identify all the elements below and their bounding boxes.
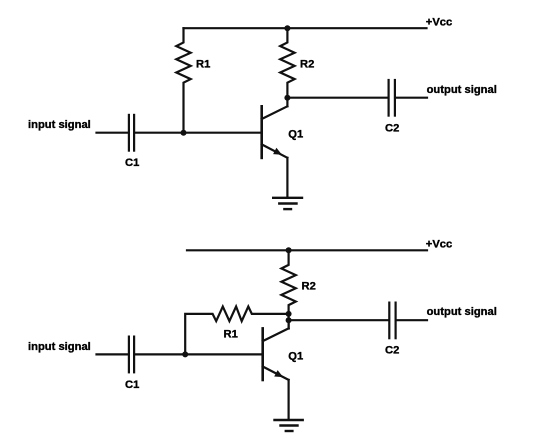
svg-text:C1: C1 <box>125 379 139 391</box>
ground (top) <box>273 198 302 209</box>
resistor R1 <box>176 28 190 133</box>
wire emitter to ground (bottom) <box>288 380 290 419</box>
resistor R2 <box>280 28 294 98</box>
node base junction (bottom) <box>182 351 188 357</box>
capacitor C2 (top) <box>388 80 390 116</box>
svg-text:output signal: output signal <box>427 306 497 318</box>
node rail-R2 junction (bottom) <box>286 247 292 253</box>
resistor R1 (bottom, feedback) <box>185 307 288 355</box>
capacitor C2 (bottom) <box>388 303 390 339</box>
svg-text:output signal: output signal <box>427 84 497 96</box>
node R1-collector junction (bottom) <box>286 311 292 317</box>
transistor Q1 (top) <box>260 106 263 158</box>
wire output right (bottom) <box>397 319 427 321</box>
svg-text:Q1: Q1 <box>288 128 303 140</box>
svg-text:+Vcc: +Vcc <box>426 16 452 28</box>
wire Vcc rail (top) <box>184 27 427 29</box>
svg-text:R1: R1 <box>196 59 210 71</box>
wire input lead (bottom) <box>97 353 128 355</box>
svg-text:input signal: input signal <box>28 341 91 353</box>
transistor Q1 (bottom) <box>261 328 264 380</box>
svg-text:C2: C2 <box>385 345 399 357</box>
wire input lead (top) <box>97 132 128 134</box>
wire output right (top) <box>396 97 427 99</box>
svg-text:C2: C2 <box>385 123 399 135</box>
wire Vcc rail (bottom) <box>187 249 427 251</box>
svg-text:input signal: input signal <box>28 119 91 131</box>
capacitor C1 (bottom) <box>128 337 130 373</box>
wire emitter to ground (top) <box>286 158 288 197</box>
node rail-R2 junction <box>284 25 290 31</box>
svg-text:R1: R1 <box>224 328 238 340</box>
ground (bottom) <box>275 420 303 431</box>
resistor R2 (bottom) <box>281 250 295 328</box>
node output junction (bottom) <box>286 317 292 323</box>
svg-text:C1: C1 <box>125 157 139 169</box>
wire output (bottom) <box>289 319 389 321</box>
node base junction (top) <box>181 130 187 136</box>
node collector junction (top) <box>284 95 290 101</box>
capacitor C1 (top) <box>128 115 130 151</box>
svg-text:Q1: Q1 <box>288 350 303 362</box>
svg-text:R2: R2 <box>300 59 314 71</box>
wire output (top) <box>287 97 387 99</box>
wire base (bottom) <box>135 353 261 355</box>
svg-text:R2: R2 <box>302 281 316 293</box>
wire base (top) <box>135 132 260 134</box>
svg-text:+Vcc: +Vcc <box>426 238 452 250</box>
